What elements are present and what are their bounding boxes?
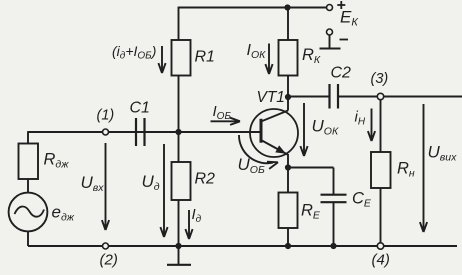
svg-text:C2: C2 [331, 65, 352, 82]
svg-text:VT1: VT1 [257, 89, 285, 106]
svg-text:R1: R1 [195, 49, 215, 66]
svg-text:R2: R2 [195, 171, 216, 188]
svg-text:(4): (4) [372, 252, 390, 269]
svg-text:(1): (1) [97, 108, 115, 124]
svg-text:(3): (3) [371, 71, 389, 87]
svg-text:(2): (2) [100, 252, 118, 269]
svg-text:C1: C1 [130, 100, 150, 117]
